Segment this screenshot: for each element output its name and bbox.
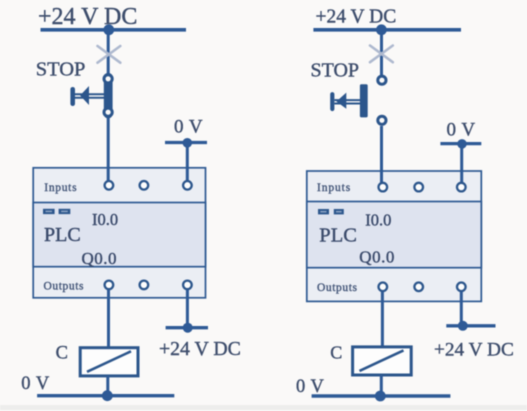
PLC middle section <box>307 202 482 268</box>
contact bridge bar <box>104 73 113 119</box>
svg-text:+24 V DC: +24 V DC <box>159 338 241 360</box>
wire input stub from button <box>107 168 110 181</box>
svg-text:+24 V DC: +24 V DC <box>38 4 137 30</box>
PLC outer box <box>33 168 205 298</box>
LED indicator 1 <box>318 209 329 214</box>
node junction on +24V bar <box>183 323 193 333</box>
LED indicator 2 <box>334 209 344 214</box>
svg-text:STOP: STOP <box>36 58 86 80</box>
wire 0V bar (left) <box>165 141 207 144</box>
svg-text:C: C <box>56 343 68 363</box>
wire button to PLC input <box>380 126 383 183</box>
LED indicator 1 <box>43 209 55 214</box>
relay coil C (left) <box>80 348 138 376</box>
actuator shaft (double line) <box>75 93 104 95</box>
PLC middle section <box>33 203 205 267</box>
wire 0V to PLC input <box>186 143 189 182</box>
svg-text:Outputs: Outputs <box>317 282 358 294</box>
relay coil C (right) <box>353 347 412 375</box>
node junction on 0V rail <box>375 391 386 402</box>
wire output to +24V bar (right) <box>460 292 463 326</box>
bottom scan smudge <box>0 405 527 410</box>
wire +24V bar (right bottom) <box>446 324 495 327</box>
svg-text:0 V: 0 V <box>174 117 203 138</box>
contact terminal bottom <box>376 115 387 126</box>
output terminal 3 <box>457 283 466 292</box>
wire input stub from button <box>380 171 383 183</box>
contact terminal top <box>376 75 387 86</box>
svg-text:Inputs: Inputs <box>44 182 77 194</box>
svg-text:STOP: STOP <box>311 60 360 82</box>
wire 0V bar (right) <box>440 142 481 145</box>
wire 0V to PLC input <box>460 144 463 183</box>
svg-text:+24 V DC: +24 V DC <box>316 7 397 28</box>
PLC module U1 (left) <box>33 168 205 298</box>
svg-text:I0.0: I0.0 <box>365 211 391 230</box>
LED indicator 2 <box>59 209 71 214</box>
svg-text:C: C <box>330 343 342 363</box>
svg-text:PLC: PLC <box>319 225 357 247</box>
output terminal 1 <box>105 281 114 290</box>
wire coil to 0V rail <box>106 376 109 396</box>
contact terminal bottom <box>103 107 114 118</box>
output terminal 2 <box>414 283 423 292</box>
svg-text:+24 V DC: +24 V DC <box>434 340 514 361</box>
svg-text:Outputs: Outputs <box>44 280 85 292</box>
node junction on +24V rail <box>376 24 387 35</box>
forced-state X mark <box>98 46 121 63</box>
pushbutton STOP (open contact, right) <box>330 75 387 126</box>
wire output Q0.0 to coil <box>107 290 110 349</box>
wire +24V bar (left bottom) <box>166 326 208 329</box>
wire output to +24V bar (left) <box>186 290 189 328</box>
wire button to PLC input <box>107 118 110 181</box>
pushbutton STOP (closed contact, left) <box>70 73 113 119</box>
svg-text:0 V: 0 V <box>447 120 476 141</box>
output terminal 2 <box>140 281 149 290</box>
wire output Q0.0 to coil <box>381 292 384 348</box>
node junction on +24V rail <box>103 24 114 35</box>
PLC outer box <box>307 171 482 301</box>
actuator wedge <box>336 93 346 109</box>
wire +24V rail (left top bus) <box>41 28 187 32</box>
wire coil to 0V rail <box>380 375 383 396</box>
svg-text:Q0.0: Q0.0 <box>82 249 118 268</box>
node junction on 0V bar <box>183 138 193 148</box>
wire input stub from 0V <box>186 168 189 182</box>
svg-text:Q0.0: Q0.0 <box>359 248 395 267</box>
wire +24V rail (right top bus) <box>313 28 461 32</box>
svg-text:I0.0: I0.0 <box>92 210 118 229</box>
contact terminal top <box>103 73 114 84</box>
input terminal 3 <box>183 181 192 190</box>
input terminal 1 <box>105 181 114 190</box>
wire from rail to STOP button <box>107 30 110 74</box>
button cap <box>330 92 334 111</box>
input terminal 2 <box>140 181 149 190</box>
svg-text:0 V: 0 V <box>296 377 325 397</box>
output terminal 3 <box>183 281 192 290</box>
contact bridge bar (pushed aside) <box>360 84 368 117</box>
node junction on +24V bar <box>458 321 468 331</box>
svg-text:0 V: 0 V <box>21 374 50 394</box>
input terminal 2 <box>414 183 423 192</box>
input terminal 1 <box>379 183 388 192</box>
node junction on 0V bar <box>457 139 467 149</box>
PLC module U2 (right) <box>307 171 482 301</box>
wire 0V rail (left bottom bus) <box>37 394 174 397</box>
forced-state X mark <box>370 46 393 63</box>
node junction on 0V rail <box>102 390 113 401</box>
wire from rail to STOP button <box>380 30 383 75</box>
actuator shaft (double line) <box>335 99 363 101</box>
wire input stub from 0V <box>460 171 463 183</box>
svg-text:PLC: PLC <box>44 224 81 246</box>
input terminal 3 <box>457 183 466 192</box>
wire 0V rail (right bottom bus) <box>312 394 451 397</box>
svg-text:Inputs: Inputs <box>317 182 351 194</box>
output terminal 1 <box>379 283 388 292</box>
button cap <box>70 87 75 106</box>
actuator wedge <box>80 86 89 105</box>
